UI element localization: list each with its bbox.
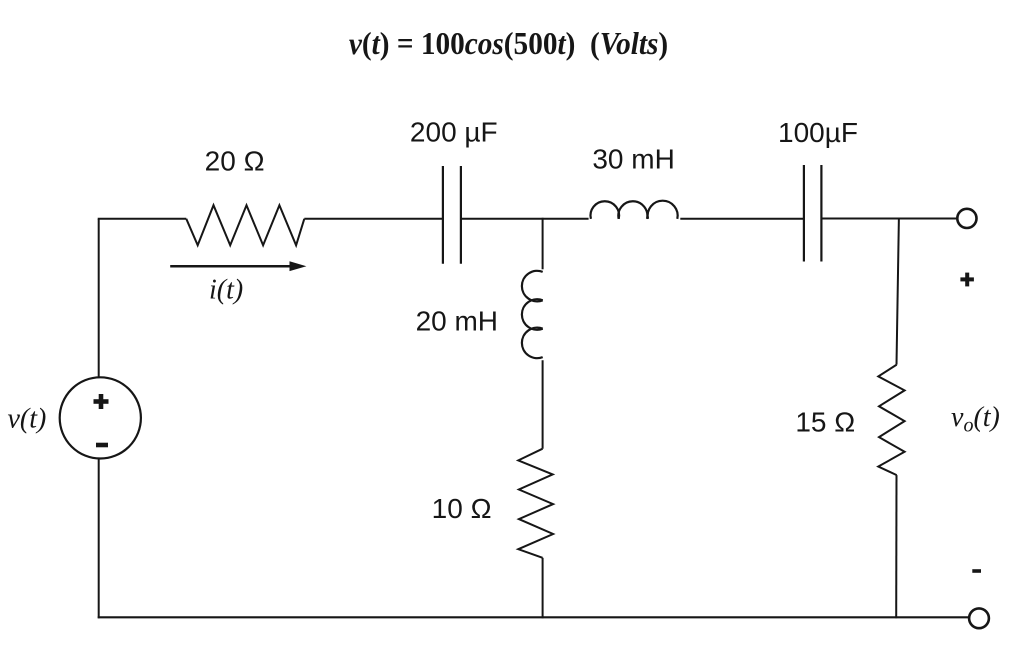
voltage source minus sign	[96, 443, 108, 448]
svg-text:30 mH: 30 mH	[592, 143, 674, 174]
wire top segment 4	[680, 218, 804, 220]
wire bottom	[98, 616, 969, 618]
svg-text:20 Ω: 20 Ω	[205, 145, 265, 176]
inductor L 20mH	[522, 271, 543, 358]
wire top segment 3	[461, 218, 589, 220]
svg-text:v(t): v(t)	[8, 404, 47, 435]
wire top segment 2	[304, 218, 443, 220]
wire left vertical top	[98, 219, 100, 377]
capacitor C2 100uF plates	[804, 165, 822, 262]
svg-text:100µF: 100µF	[778, 117, 858, 148]
wire middle branch mid	[542, 360, 544, 449]
output plus sign	[960, 273, 974, 287]
svg-text:10 Ω: 10 Ω	[432, 493, 492, 524]
wire top segment 5	[821, 218, 957, 220]
wire middle branch upper	[542, 218, 544, 269]
svg-text:v(t) = 100cos(500t) (Volts): v(t) = 100cos(500t) (Volts)	[349, 26, 668, 61]
svg-text:vo(t): vo(t)	[951, 402, 1000, 437]
resistor R 10ohm	[518, 449, 553, 558]
wire right branch upper	[897, 218, 899, 365]
terminal bottom	[969, 608, 989, 628]
wire left vertical bottom	[98, 460, 100, 619]
svg-text:200 µF: 200 µF	[410, 116, 498, 147]
inductor L 30mH	[591, 201, 678, 219]
wire right branch lower	[895, 475, 897, 618]
resistor R 20ohm	[186, 205, 304, 245]
svg-text:15 Ω: 15 Ω	[795, 406, 855, 437]
output minus sign	[972, 569, 981, 573]
terminal top	[957, 209, 976, 228]
wire top segment 1	[98, 218, 187, 220]
capacitor C1 200uF plates	[443, 166, 461, 264]
resistor R 15ohm	[878, 365, 904, 476]
svg-text:i(t): i(t)	[209, 275, 243, 306]
current arrow i(t)	[170, 261, 306, 271]
voltage source V1 circle	[60, 377, 141, 458]
voltage source plus sign	[94, 394, 109, 409]
title equation v(t) = 100cos(500t) (Volts)	[349, 26, 668, 61]
wire middle branch lower	[542, 558, 544, 619]
svg-text:20 mH: 20 mH	[416, 306, 498, 337]
